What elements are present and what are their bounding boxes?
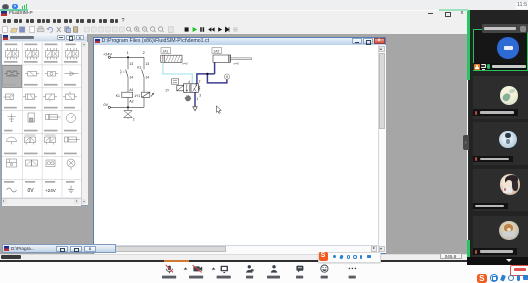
icon: blue shield (12, 4, 17, 9)
svg-text:1: 1 (127, 51, 129, 55)
app title bar (1, 11, 7, 16)
wire (selected, cyan) cylinder 1A1 to valve port 4 (163, 62, 192, 83)
library symbol: pilot valve (25, 160, 37, 166)
grid lines (2, 42, 82, 198)
svg-text:A2: A2 (129, 100, 133, 104)
library symbol: 5/2-way valve (45, 48, 58, 60)
caret 2 (212, 267, 216, 269)
sogou bar (host machine) (477, 274, 488, 283)
pushbutton S1 (NO contact, 13-14) (121, 70, 128, 78)
mic icon (168, 265, 171, 270)
library symbol: air motor (64, 137, 79, 142)
icon: record circle (2, 4, 9, 11)
chat icon (296, 265, 303, 270)
air service unit (filter) (124, 111, 132, 119)
lib v scrollbar (81, 42, 88, 205)
cylinder 1A1 (single-acting, spring return) (161, 55, 182, 62)
relay coil K1 (A1-A2) (122, 92, 133, 97)
svg-text:1: 1 (196, 97, 198, 101)
svg-text:4: 4 (188, 80, 190, 84)
wire to service unit (127, 107, 129, 110)
svg-text:n=0: n=0 (234, 61, 239, 65)
gauge K (224, 74, 229, 79)
svg-text:K1: K1 (116, 94, 120, 98)
toolbar (0, 25, 465, 35)
tile 2 (473, 76, 528, 119)
library symbol: valve assembly A (24, 135, 35, 145)
svg-text:1A1: 1A1 (162, 49, 168, 53)
node 0V terminal (108, 106, 110, 108)
mouse cursor (216, 106, 221, 114)
tile 5 (473, 216, 528, 257)
library symbol: air source (67, 159, 75, 170)
svg-text:K1: K1 (137, 65, 141, 69)
library symbol: indicator (46, 160, 55, 167)
library symbol: check valve (64, 71, 78, 75)
svg-text:A1: A1 (129, 88, 133, 92)
wire 0V rail (110, 106, 144, 108)
tile 4 (473, 169, 528, 211)
svg-text:0V: 0V (103, 103, 108, 107)
teal accent under icons (0, 9, 28, 11)
caret 1 (184, 267, 188, 269)
svg-text:1Y1: 1Y1 (134, 94, 140, 98)
library symbol: suction cup (6, 137, 16, 145)
selected cell highlight (2, 65, 21, 87)
camera icon (193, 266, 199, 271)
wire branch 2 upper (143, 57, 145, 69)
labels (162, 275, 356, 278)
pressure line junction to gauge K (207, 74, 227, 83)
svg-text:+24V: +24V (45, 188, 57, 193)
library symbol: pressure gauge (66, 113, 75, 122)
library symbol: throttle valve (selected) (4, 71, 19, 76)
speaking tooltip (482, 24, 528, 33)
svg-text:0V: 0V (27, 188, 34, 194)
members icon (272, 265, 275, 268)
library symbol: counter (6, 159, 16, 167)
circuit window buttons (352, 38, 362, 44)
svg-text:2: 2 (143, 51, 145, 55)
spring return of valve 1V (198, 86, 200, 91)
relay contact K1 (NO) (142, 70, 144, 78)
lib window buttons (57, 35, 66, 41)
svg-text:13: 13 (129, 62, 133, 66)
svg-text:n=0: n=0 (182, 61, 187, 65)
library symbol: pressure regulator (63, 91, 77, 99)
more dots (349, 267, 351, 269)
svg-text:3: 3 (199, 94, 201, 98)
library symbol: 4/2-way valve (5, 48, 18, 60)
icon: green signal bars (22, 6, 23, 8)
pressure line 1A2 to junction (214, 62, 216, 74)
manual override hand (185, 95, 191, 101)
menu bar (3, 19, 7, 23)
h scrollbar (94, 245, 378, 254)
library symbol: vertical cylinder (28, 113, 35, 122)
row1 captions (4, 43, 17, 45)
svg-text:14: 14 (129, 75, 133, 79)
wire branch 1 middle (127, 77, 129, 92)
lib h scrollbar (2, 198, 82, 206)
tile 3 (473, 122, 528, 164)
svg-text:+24V: +24V (103, 53, 112, 57)
collapse tab (463, 135, 469, 150)
library symbol: valve assembly B (44, 135, 55, 145)
svg-text:1Y: 1Y (165, 89, 170, 93)
speaker tile (473, 29, 528, 70)
label frame 1A1 (161, 48, 171, 54)
library symbol: two-pressure valve (23, 94, 37, 100)
pressure line valve port 1 down (194, 92, 196, 106)
library symbol: function generator (6, 188, 16, 192)
wire branch 1 upper (127, 57, 129, 69)
v scrollbar (378, 45, 386, 253)
svg-text:2: 2 (133, 117, 135, 121)
red tooltip (510, 265, 528, 276)
screen share icon (221, 265, 228, 270)
library symbol: nozzle (7, 113, 15, 121)
library symbol: single-acting cylinder (45, 114, 60, 119)
pilot box of valve 1V (172, 79, 179, 84)
label frame 1A2 (212, 48, 222, 54)
svg-text:13: 13 (145, 62, 149, 66)
library symbol: quick exhaust valve (43, 94, 57, 102)
invite person icon (248, 265, 251, 268)
wire branch 2 middle (143, 77, 145, 92)
wire branch 1 lower (127, 97, 129, 107)
app window buttons (428, 13, 433, 14)
library symbol: 5/3-way valve (65, 48, 78, 60)
pressure line junction to valve port 2 (197, 74, 215, 84)
exhaust triangle (193, 107, 198, 111)
share label bar (473, 63, 527, 70)
solenoid valve coil 1Y1 (142, 92, 150, 97)
time box top right (516, 2, 528, 9)
junction (206, 73, 208, 75)
svg-text:2: 2 (199, 80, 201, 84)
wire branch 2 lower (143, 97, 145, 107)
node +24V terminal (108, 56, 110, 58)
canvas (94, 45, 378, 245)
library symbol: 4/3-way valve (25, 48, 38, 60)
library symbol: one-way flow control (25, 71, 39, 76)
library symbol: throttle check valve (45, 71, 58, 76)
svg-text:14: 14 (145, 75, 149, 79)
wire +24V rail (110, 56, 144, 58)
cylinder 1A2 (extended) (213, 55, 251, 62)
svg-text:1A2: 1A2 (213, 49, 219, 53)
library symbol: shuttle valve (3, 94, 13, 100)
lib body (2, 42, 82, 198)
valve 1V (3/2-way solenoid valve) (184, 84, 199, 93)
sidebar bottom bar (467, 257, 528, 265)
smiley icon (321, 265, 328, 272)
green share border (467, 10, 470, 80)
library symbol: earth (68, 185, 74, 192)
circuit title bar (94, 38, 385, 45)
solenoid actuator of valve 1V (177, 85, 184, 90)
